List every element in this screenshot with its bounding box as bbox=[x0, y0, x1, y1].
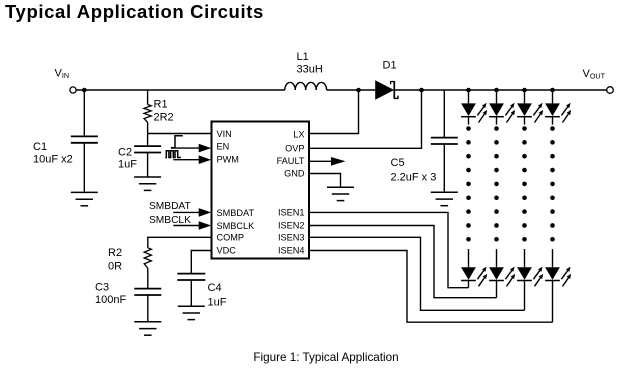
svg-text:EN: EN bbox=[217, 141, 230, 151]
svg-text:ISEN3: ISEN3 bbox=[278, 233, 305, 243]
svg-text:VDC: VDC bbox=[217, 246, 237, 256]
svg-text:GND: GND bbox=[284, 169, 305, 179]
svg-text:C2: C2 bbox=[118, 147, 132, 159]
svg-text:PWM: PWM bbox=[217, 154, 239, 164]
svg-text:D1: D1 bbox=[383, 60, 397, 72]
svg-text:SMBDAT: SMBDAT bbox=[217, 208, 255, 218]
svg-text:Figure 1: Typical Application: Figure 1: Typical Application bbox=[253, 351, 398, 364]
svg-text:33uH: 33uH bbox=[297, 64, 323, 76]
svg-text:OVP: OVP bbox=[285, 144, 304, 154]
svg-text:SMBCLK: SMBCLK bbox=[217, 221, 256, 231]
svg-text:0R: 0R bbox=[108, 261, 122, 273]
svg-text:Typical Application Circuits: Typical Application Circuits bbox=[5, 1, 264, 22]
svg-text:FAULT: FAULT bbox=[277, 156, 305, 166]
svg-text:ISEN1: ISEN1 bbox=[278, 208, 305, 218]
svg-text:VIN: VIN bbox=[217, 129, 232, 139]
svg-text:100nF: 100nF bbox=[95, 294, 126, 306]
svg-text:SMBCLK: SMBCLK bbox=[149, 215, 191, 226]
svg-text:C1: C1 bbox=[33, 141, 47, 153]
svg-text:R2: R2 bbox=[108, 247, 122, 259]
svg-text:R1: R1 bbox=[154, 99, 168, 111]
svg-text:COMP: COMP bbox=[217, 233, 245, 243]
svg-text:L1: L1 bbox=[297, 51, 309, 63]
svg-text:LX: LX bbox=[293, 129, 304, 139]
svg-text:C3: C3 bbox=[95, 282, 109, 294]
svg-text:C5: C5 bbox=[391, 157, 405, 169]
svg-text:C4: C4 bbox=[208, 282, 222, 294]
svg-text:2R2: 2R2 bbox=[154, 112, 174, 124]
svg-text:SMBDAT: SMBDAT bbox=[149, 201, 191, 212]
svg-text:10uF x2: 10uF x2 bbox=[33, 154, 73, 166]
svg-text:ISEN2: ISEN2 bbox=[278, 221, 305, 231]
svg-text:2.2uF x 3: 2.2uF x 3 bbox=[391, 172, 437, 184]
svg-text:1uF: 1uF bbox=[118, 159, 137, 171]
svg-text:1uF: 1uF bbox=[208, 297, 227, 309]
svg-text:ISEN4: ISEN4 bbox=[278, 246, 305, 256]
